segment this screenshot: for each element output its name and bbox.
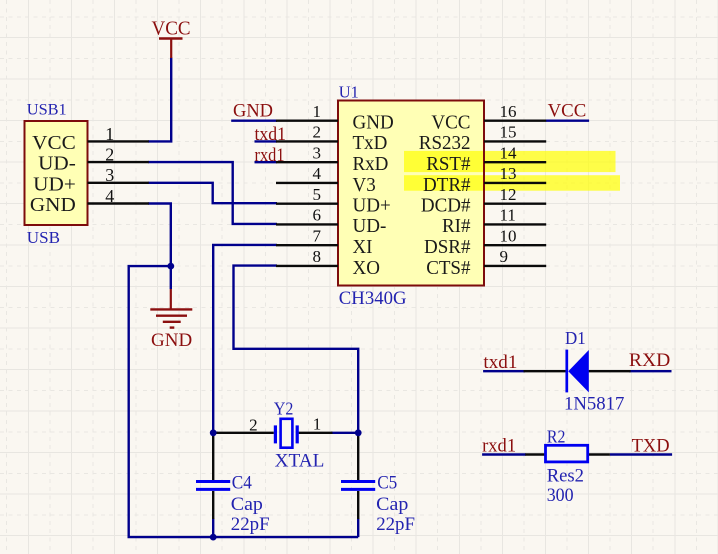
svg-text:4: 4 [105, 186, 114, 206]
svg-text:11: 11 [500, 206, 516, 225]
svg-text:RXD: RXD [629, 350, 670, 371]
svg-text:12: 12 [500, 185, 517, 204]
svg-text:UD-: UD- [38, 153, 76, 175]
svg-text:1: 1 [313, 102, 322, 121]
crystal Y2 pin 1 [299, 432, 333, 434]
crystal Y2 pin 2 [215, 432, 274, 434]
svg-text:RS232: RS232 [419, 132, 471, 154]
svg-text:Y2: Y2 [274, 399, 294, 419]
connector USB1 body [25, 121, 88, 225]
svg-text:USB: USB [27, 228, 60, 247]
U1 pin 5 [276, 202, 338, 204]
svg-text:6: 6 [313, 206, 322, 225]
junction ground branch [167, 263, 174, 270]
svg-text:DCD#: DCD# [421, 195, 471, 217]
svg-text:U1: U1 [339, 83, 359, 102]
svg-text:rxd1: rxd1 [482, 435, 516, 456]
svg-text:10: 10 [500, 226, 517, 245]
USB1 pin 1 [88, 140, 149, 142]
svg-text:VCC: VCC [548, 100, 587, 121]
svg-text:Cap: Cap [376, 494, 408, 515]
IC U1 body [338, 101, 484, 286]
svg-text:14: 14 [500, 143, 518, 162]
U1 pin 2 [276, 140, 338, 142]
U1 pin 6 [276, 223, 338, 225]
svg-text:V3: V3 [353, 174, 376, 196]
diode D1 [565, 350, 568, 393]
svg-text:XO: XO [353, 257, 380, 279]
diode D1 cathode pin [589, 370, 631, 372]
ground GND symbol [170, 289, 172, 309]
power VCC symbol [159, 37, 183, 40]
U1 pin 15 [484, 140, 546, 142]
wire VCC to USB1 pin1 [148, 58, 171, 142]
resistor R2 right pin [587, 453, 610, 455]
svg-text:TXD: TXD [632, 435, 670, 456]
svg-text:GND: GND [233, 100, 273, 121]
svg-text:DTR#: DTR# [423, 174, 471, 196]
wire net txd1 stub at U1 pin2 [255, 140, 278, 142]
capacitor C4 [212, 433, 214, 480]
junction crystal pin2 / C4 [210, 429, 217, 436]
svg-text:7: 7 [313, 226, 322, 245]
crystal Y2 [274, 425, 277, 443]
U1 pin 8 [276, 265, 338, 267]
U1 pin 10 [484, 244, 546, 246]
wire net RXD stub at D1 [629, 370, 671, 372]
U1 pin 12 [484, 202, 546, 204]
junction C4 / bottom rail [210, 534, 217, 541]
U1 pin 11 [484, 223, 546, 225]
wire net VCC stub at U1 pin16 [546, 119, 589, 121]
wire ground branch to bottom rail [129, 266, 359, 537]
svg-text:1: 1 [313, 414, 322, 433]
wire U1 XO to crystal/C5 [234, 266, 359, 434]
wire crystal pin1 link [331, 432, 358, 434]
wire USB1 UD- to U1 pin6 [148, 162, 277, 224]
svg-text:16: 16 [500, 102, 517, 121]
svg-text:VCC: VCC [431, 112, 470, 134]
wire net rxd1 stub at U1 pin3 [255, 161, 278, 163]
USB1 pin 2 [88, 161, 149, 163]
U1 pin 16 [484, 119, 546, 121]
USB1 pin 3 [88, 182, 149, 184]
wire crystal pin2 link [213, 432, 218, 434]
svg-text:1: 1 [105, 124, 114, 144]
svg-text:22pF: 22pF [231, 514, 270, 535]
resistor R2 body [546, 445, 588, 462]
svg-text:C5: C5 [377, 473, 397, 494]
svg-text:GND: GND [151, 330, 192, 351]
svg-text:CTS#: CTS# [426, 257, 470, 279]
svg-text:GND: GND [30, 194, 76, 216]
highlight RST# row [404, 151, 616, 172]
svg-text:rxd1: rxd1 [255, 145, 285, 166]
wire net TXD stub at R2 [610, 453, 672, 455]
svg-text:RI#: RI# [442, 215, 471, 237]
svg-text:22pF: 22pF [376, 514, 415, 535]
svg-text:Cap: Cap [231, 494, 263, 515]
svg-text:5: 5 [313, 185, 322, 204]
wire U1 XI to crystal/C4 [213, 245, 277, 434]
svg-text:Res2: Res2 [547, 465, 584, 486]
svg-text:GND: GND [353, 112, 394, 134]
svg-text:2: 2 [313, 123, 322, 142]
svg-text:C4: C4 [232, 473, 253, 494]
svg-text:UD+: UD+ [353, 195, 391, 217]
svg-text:VCC: VCC [32, 132, 76, 154]
wire net GND stub at U1 pin1 [231, 119, 277, 121]
svg-text:txd1: txd1 [483, 352, 517, 373]
svg-text:300: 300 [547, 485, 574, 506]
U1 pin 14 [484, 161, 546, 163]
svg-text:USB1: USB1 [27, 101, 67, 118]
svg-text:2: 2 [249, 415, 258, 434]
svg-text:3: 3 [105, 165, 114, 185]
U1 pin 13 [484, 182, 546, 184]
U1 pin 4 [276, 182, 338, 184]
svg-text:UD-: UD- [353, 215, 387, 237]
junction crystal pin1 / C5 [355, 429, 362, 436]
diode D1 anode pin [524, 370, 567, 372]
wire USB1 UD+ to U1 pin5 [148, 183, 277, 203]
wire C5 bottom to rail [357, 519, 359, 538]
wire USB1 GND down to ground [148, 204, 171, 290]
svg-text:txd1: txd1 [255, 124, 287, 145]
svg-text:1N5817: 1N5817 [564, 393, 624, 414]
USB1 pin 4 [88, 202, 149, 204]
wire net txd1 stub at D1 [483, 370, 525, 372]
svg-text:UD+: UD+ [33, 173, 76, 195]
highlight DTR# row [404, 175, 620, 191]
svg-text:13: 13 [500, 164, 517, 183]
wire C4 bottom to rail [212, 519, 214, 538]
svg-text:VCC: VCC [152, 18, 191, 39]
svg-text:XI: XI [353, 236, 373, 258]
svg-text:8: 8 [313, 247, 322, 266]
svg-text:RxD: RxD [353, 153, 389, 175]
svg-text:3: 3 [313, 143, 322, 162]
svg-text:TxD: TxD [353, 132, 388, 154]
svg-text:RST#: RST# [426, 153, 470, 175]
IC U1 outline [338, 101, 484, 286]
resistor R2 left pin [525, 453, 545, 455]
U1 pin 9 [484, 265, 546, 267]
svg-text:2: 2 [105, 145, 114, 165]
svg-text:R2: R2 [547, 426, 566, 446]
U1 pin 7 [276, 244, 338, 246]
capacitor C5 [357, 433, 359, 480]
svg-text:CH340G: CH340G [339, 288, 407, 309]
svg-text:9: 9 [500, 247, 509, 266]
svg-text:DSR#: DSR# [424, 236, 471, 258]
wire net rxd1 stub at R2 [482, 453, 526, 455]
svg-text:15: 15 [500, 123, 517, 142]
svg-text:XTAL: XTAL [275, 451, 325, 472]
U1 pin 3 [276, 161, 338, 163]
svg-text:D1: D1 [565, 328, 586, 348]
svg-text:4: 4 [313, 164, 322, 183]
U1 pin 1 [276, 119, 338, 121]
